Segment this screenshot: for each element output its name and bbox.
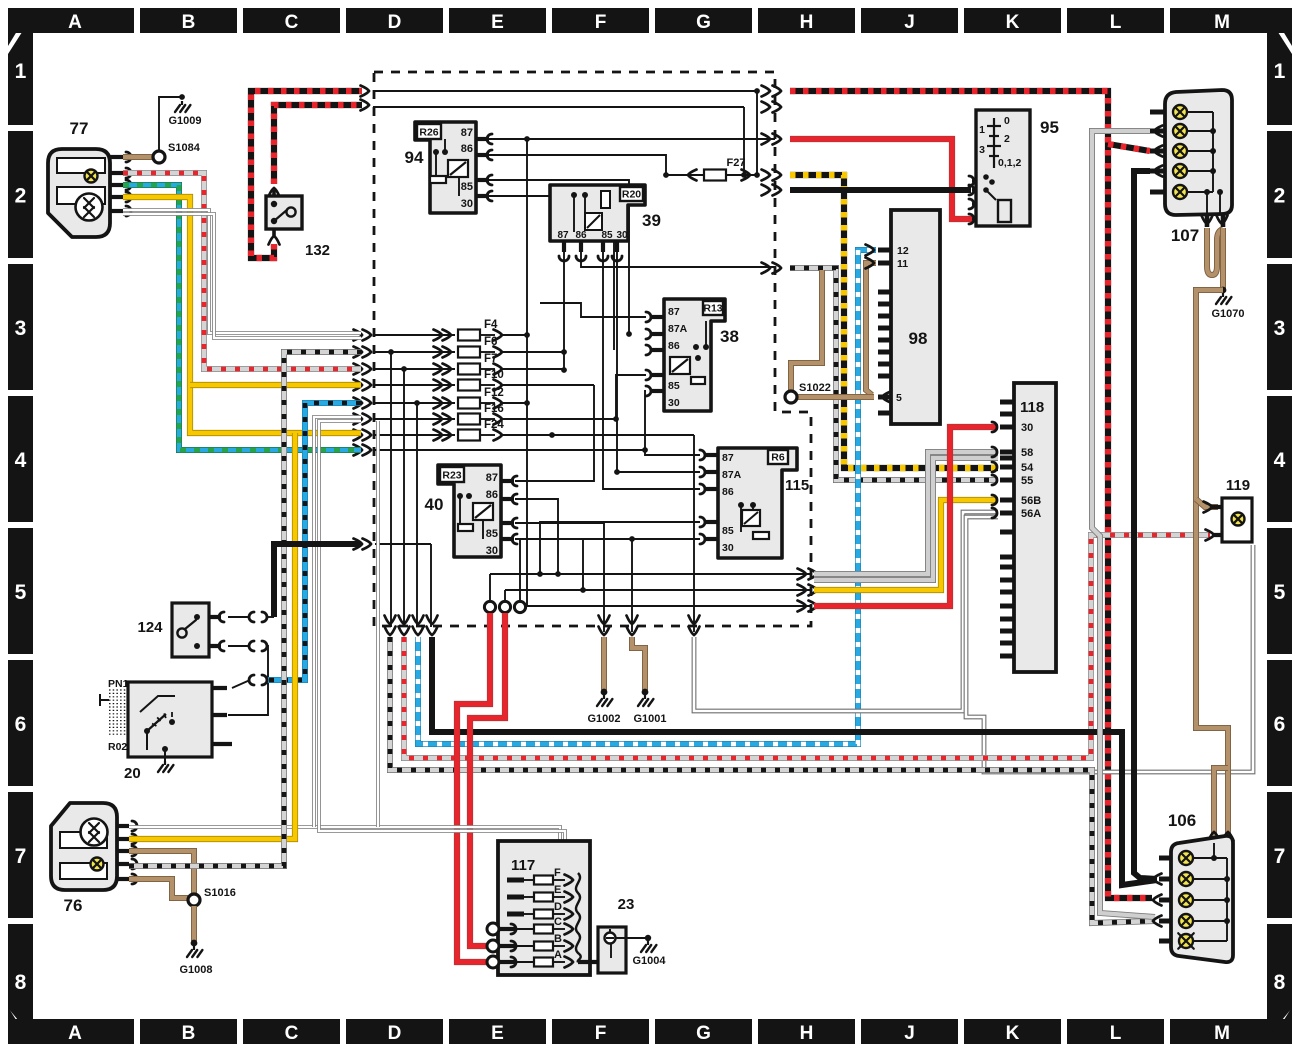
svg-text:98: 98 <box>909 329 928 348</box>
svg-text:95: 95 <box>1040 118 1059 137</box>
svg-text:1: 1 <box>15 60 27 83</box>
svg-text:G1009: G1009 <box>168 115 201 127</box>
wire red/black stripe battery loop to 132 <box>251 91 362 258</box>
svg-text:87: 87 <box>722 452 734 464</box>
wire brown 77 pin1 to S1084 <box>123 154 152 160</box>
wire green/blue stripe 77 pin3 to row y=450 <box>123 185 361 450</box>
svg-text:85: 85 <box>486 528 498 540</box>
fuse F24 <box>375 434 455 436</box>
svg-text:2: 2 <box>1004 133 1010 145</box>
svg-text:F24: F24 <box>484 419 504 431</box>
svg-text:D: D <box>388 1023 402 1044</box>
svg-text:R02: R02 <box>108 741 127 753</box>
svg-text:F7: F7 <box>484 353 497 365</box>
svg-text:G1004: G1004 <box>632 955 666 967</box>
svg-text:F12: F12 <box>484 387 504 399</box>
svg-text:A: A <box>68 1023 82 1044</box>
svg-text:3: 3 <box>979 144 985 156</box>
svg-text:0,1,2: 0,1,2 <box>998 157 1022 169</box>
node arrows on dashed border step x=811 <box>798 569 807 580</box>
wire riser x=744 <box>743 107 745 175</box>
svg-text:115: 115 <box>785 477 809 494</box>
svg-text:3: 3 <box>1274 317 1286 340</box>
wire trunk x=527 <box>526 139 528 606</box>
splice S1016 <box>188 894 200 906</box>
svg-text:107: 107 <box>1171 226 1199 245</box>
svg-text:12: 12 <box>897 245 909 257</box>
svg-text:5: 5 <box>896 392 902 404</box>
control unit 118 <box>992 383 1056 672</box>
svg-text:23: 23 <box>618 896 635 913</box>
svg-text:F: F <box>595 1023 607 1044</box>
node arrows on dashed border bottom exits <box>385 616 396 625</box>
relay 40 <box>425 465 517 557</box>
wire yellow 77 pin4 to fuses F10/F24 <box>123 197 361 433</box>
wire relay38 pin30 to thin row y=450 <box>645 391 700 455</box>
svg-text:30: 30 <box>616 230 628 241</box>
corner triangles <box>8 8 31 46</box>
instrument module 20 <box>100 678 232 782</box>
wire relay39 pin85 drop to relay115 pin86 <box>603 252 700 489</box>
svg-text:5: 5 <box>15 581 27 604</box>
svg-text:76: 76 <box>64 896 83 915</box>
svg-text:0: 0 <box>1004 115 1010 127</box>
wire cyan/black stripe F12 to 20 <box>266 403 361 680</box>
svg-text:G1002: G1002 <box>587 713 620 725</box>
svg-text:R6: R6 <box>771 452 785 464</box>
svg-text:30: 30 <box>1021 422 1033 434</box>
wire relay115 pin85 drop <box>540 522 700 574</box>
svg-text:C: C <box>285 12 299 33</box>
wire thin feed y=91 to F27 riser <box>373 90 757 92</box>
wire relay38 pin87 link <box>540 303 646 317</box>
svg-text:30: 30 <box>461 198 473 210</box>
wire 124 pin1 link <box>228 616 250 618</box>
wire black row y=544 arrows <box>363 539 372 550</box>
svg-text:F: F <box>595 12 607 33</box>
wire white 118 pin56A loop 1 <box>694 512 998 711</box>
wire brown to G1001 <box>632 637 645 690</box>
svg-text:117: 117 <box>511 857 535 874</box>
splice S1022 <box>785 391 797 403</box>
svg-text:F6: F6 <box>484 336 497 348</box>
ground G1009 <box>159 97 181 151</box>
wire brown branch to 119 pin1 <box>1196 499 1218 507</box>
wire red to light switch 95 <box>790 139 972 219</box>
wire yellow 76 pin2 riser to F24 <box>129 433 295 839</box>
wire brown to G1002 <box>601 637 607 690</box>
svg-text:1: 1 <box>979 124 985 136</box>
svg-text:A: A <box>68 12 82 33</box>
wire brown S1022 feed <box>791 270 822 391</box>
wire gray second 118 pin58 exit <box>814 458 998 580</box>
wire blue/white stripe 98 pin12 loop <box>418 250 876 744</box>
svg-text:J: J <box>904 12 915 33</box>
svg-text:3: 3 <box>15 317 27 340</box>
wire brown 98 pin11 to S1022 <box>866 263 876 395</box>
headlamp 77 <box>48 119 131 237</box>
svg-text:30: 30 <box>722 542 734 554</box>
wire relay94 pin30 to relay38 pin86 <box>489 196 614 350</box>
wire connector circle risers <box>489 574 491 600</box>
sensor 23 <box>598 896 634 973</box>
wire white 118 pin56A loop 2 <box>966 517 1253 772</box>
svg-text:7: 7 <box>1274 845 1286 868</box>
node arrows brown into 106 <box>1209 832 1220 841</box>
svg-text:K: K <box>1006 12 1020 33</box>
fuse F16 <box>375 418 455 420</box>
svg-text:6: 6 <box>1274 713 1286 736</box>
svg-text:56B: 56B <box>1021 495 1041 507</box>
splice S1084 <box>153 151 165 163</box>
wire red connector to 117 pin A <box>457 613 490 962</box>
wire gray/red stripe 77 pin2 to fuse F7 <box>123 173 361 369</box>
svg-text:87: 87 <box>461 127 473 139</box>
wire yellow/black stripe F27 to 118 pin54 <box>790 175 998 468</box>
light switch 95 <box>969 110 1059 226</box>
svg-text:S1016: S1016 <box>204 887 236 899</box>
svg-text:B: B <box>554 933 562 945</box>
connector circles <box>484 601 495 612</box>
svg-text:87: 87 <box>668 306 680 318</box>
svg-text:M: M <box>1214 12 1230 33</box>
wire thin feed y=107 <box>373 106 744 108</box>
fuse F12 <box>375 402 455 404</box>
svg-text:G1001: G1001 <box>633 713 666 725</box>
svg-text:R13: R13 <box>703 303 722 315</box>
svg-text:30: 30 <box>486 545 498 557</box>
svg-text:54: 54 <box>1021 462 1034 474</box>
wire relay38 pin85 to fuse F16 <box>616 375 646 419</box>
fuse F7 <box>375 368 455 370</box>
wire relay94 pin86 to fuse F27 <box>489 155 666 175</box>
svg-text:H: H <box>800 1023 814 1044</box>
dashed fuse-relay box outline <box>374 72 811 626</box>
svg-text:R23: R23 <box>442 470 461 482</box>
svg-text:E: E <box>491 12 504 33</box>
wire black to light switch 95 <box>790 187 971 193</box>
svg-text:S1022: S1022 <box>799 382 831 394</box>
svg-text:L: L <box>1110 1023 1122 1044</box>
right grid number boxes 1-8 <box>1267 15 1292 1038</box>
svg-text:86: 86 <box>461 143 473 155</box>
wire thin row y=544 <box>375 543 431 545</box>
svg-text:87: 87 <box>557 230 569 241</box>
left grid number boxes 1-8 <box>8 15 33 1038</box>
wire brown 107 to G1070 <box>1220 228 1226 290</box>
wire gray/red stripe bundle to 119 pin2 <box>404 535 1210 758</box>
wire black 117 to 23 <box>578 960 608 964</box>
svg-text:F: F <box>554 867 561 879</box>
wire relay39 pin30 drop to relay115 pin87A <box>617 252 700 472</box>
top grid letter boxes A-M <box>14 8 1288 33</box>
fuse F27 <box>666 174 757 176</box>
wire brown 76 pin3 to S1016 <box>129 851 194 894</box>
wire riser x=757 <box>756 91 758 175</box>
svg-text:56A: 56A <box>1021 508 1041 520</box>
wire brown 107 hairpin <box>1207 228 1223 275</box>
svg-text:L: L <box>1110 12 1122 33</box>
svg-text:E: E <box>491 1023 504 1044</box>
svg-text:55: 55 <box>1021 475 1033 487</box>
svg-text:6: 6 <box>15 713 27 736</box>
wire red 118 pin30 exit <box>814 427 998 606</box>
svg-text:106: 106 <box>1168 811 1196 830</box>
svg-text:30: 30 <box>668 397 680 409</box>
wire relay40 pin87 row <box>515 385 594 481</box>
wire brown S1016 to G1008 <box>191 906 197 941</box>
svg-text:39: 39 <box>642 211 661 230</box>
svg-text:86: 86 <box>722 486 734 498</box>
wire brown main right trunk <box>1196 290 1228 840</box>
svg-text:40: 40 <box>425 495 444 514</box>
wire brown spur to 106 <box>1214 768 1228 840</box>
switch 124 <box>137 603 224 657</box>
svg-text:86: 86 <box>486 489 498 501</box>
svg-text:G: G <box>696 1023 711 1044</box>
wire green row y=450 arrows <box>363 445 372 456</box>
svg-text:20: 20 <box>124 765 141 782</box>
wire gray/natural 107 pin2 down to 106 pin4 <box>1092 131 1155 917</box>
wire relay94 pin85 to relay38 pin87A <box>489 180 629 334</box>
side lamp 119 <box>1212 477 1252 542</box>
svg-text:5: 5 <box>1274 581 1286 604</box>
svg-text:D: D <box>554 901 562 913</box>
wire natural/black stripe bundle to 106 pin4 <box>390 637 1155 923</box>
wire thin row y=450 <box>375 449 645 451</box>
wire exit y=590 <box>505 589 812 591</box>
svg-text:1: 1 <box>1274 60 1286 83</box>
wire thin white F16 riser x=378 <box>376 421 380 827</box>
wire brown S1022 to 98 pin5 <box>797 394 874 400</box>
wire natural/black stripe to 118 pin55 <box>790 268 998 480</box>
wire relay39 pin86 drop to natural wire exit y=267 <box>581 252 775 267</box>
svg-text:F4: F4 <box>484 319 498 331</box>
svg-text:86: 86 <box>668 340 680 352</box>
svg-text:A: A <box>554 949 562 961</box>
svg-text:85: 85 <box>668 380 680 392</box>
svg-text:F16: F16 <box>484 403 504 415</box>
relay 115 <box>700 448 809 558</box>
svg-text:119: 119 <box>1226 477 1250 494</box>
headlamp 76 <box>51 803 137 915</box>
fuse F6 <box>375 351 455 353</box>
svg-text:2: 2 <box>15 185 27 208</box>
fuse F10 <box>375 384 455 386</box>
svg-text:124: 124 <box>137 619 163 636</box>
svg-text:8: 8 <box>1274 971 1286 994</box>
svg-text:87: 87 <box>486 472 498 484</box>
svg-text:K: K <box>1006 1023 1020 1044</box>
svg-text:86: 86 <box>575 230 587 241</box>
wire relay115 pin30 row y=539 <box>520 539 700 600</box>
relay 38 <box>646 299 739 411</box>
svg-text:11: 11 <box>897 258 908 270</box>
wire natural/black stripe 76 pin4 to fuse F6 <box>129 352 361 866</box>
wire red connector to 117 pin B <box>470 613 505 946</box>
wire fuse column risers <box>390 352 392 627</box>
wire G1001 exit drop x=632 <box>631 539 633 632</box>
wire relay39 pin87 drop x=564 <box>563 252 565 370</box>
svg-text:B: B <box>182 1023 196 1044</box>
svg-text:4: 4 <box>15 449 27 472</box>
svg-text:7: 7 <box>15 845 27 868</box>
svg-text:87A: 87A <box>668 323 688 335</box>
wire red/black stripe main feed to 107 <box>790 91 1152 898</box>
svg-text:8: 8 <box>15 971 27 994</box>
svg-text:85: 85 <box>461 181 473 193</box>
svg-text:77: 77 <box>70 119 89 138</box>
ground G1070 <box>1220 287 1227 294</box>
wire relay40 pin85 drop to G1002 exit <box>515 523 604 632</box>
svg-text:94: 94 <box>405 148 424 167</box>
fuse F4 <box>375 334 455 336</box>
bottom grid letter boxes A-M <box>14 1019 1288 1044</box>
wire thin white 77 pin5 to fuse F4 <box>123 210 361 333</box>
relay 94 <box>405 122 492 213</box>
wire white exit drop x=694 <box>693 435 695 632</box>
svg-text:118: 118 <box>1020 399 1044 416</box>
svg-text:132: 132 <box>305 242 330 259</box>
svg-text:R26: R26 <box>419 127 438 139</box>
svg-text:85: 85 <box>601 230 613 241</box>
svg-text:4: 4 <box>1274 449 1286 472</box>
svg-text:F27: F27 <box>727 157 746 169</box>
wire brown 76 pin5 to S1016 <box>129 879 188 898</box>
wire yellow 118 pin56B exit <box>814 500 998 590</box>
svg-text:B: B <box>182 12 196 33</box>
ground G1004 <box>616 937 646 939</box>
svg-text:E: E <box>554 884 561 896</box>
svg-text:38: 38 <box>720 327 739 346</box>
svg-text:M: M <box>1214 1023 1230 1044</box>
svg-text:85: 85 <box>722 525 734 537</box>
wire relay94 pin87 feed y=139 <box>489 138 775 140</box>
svg-text:58: 58 <box>1021 447 1033 459</box>
switch 132 <box>266 190 330 259</box>
wire relay40 pin30 drop <box>515 539 583 590</box>
svg-text:G1070: G1070 <box>1211 308 1244 320</box>
wire exit y=606 <box>527 605 812 607</box>
relay 39 <box>550 185 661 261</box>
svg-text:R20: R20 <box>622 189 641 201</box>
svg-text:C: C <box>285 1023 299 1044</box>
wire black bundle to 106 pin2 <box>432 637 1157 885</box>
svg-text:C: C <box>554 916 562 928</box>
wire thin white 76 pin1 to 117 <box>129 827 560 841</box>
connector 107 <box>1150 90 1232 245</box>
svg-text:G1008: G1008 <box>179 964 212 976</box>
wire black 107 pin4 down to 106 pin2 <box>1134 171 1157 879</box>
control unit 98 <box>866 210 941 424</box>
svg-text:F10: F10 <box>484 369 504 381</box>
rear lamp 106 <box>1153 811 1233 962</box>
wire thin white pair F16 drop <box>314 417 361 827</box>
fuse link block 117 <box>487 841 590 975</box>
svg-text:H: H <box>800 12 814 33</box>
svg-text:D: D <box>388 12 402 33</box>
svg-text:87A: 87A <box>722 469 742 481</box>
svg-text:PN1: PN1 <box>108 678 129 690</box>
svg-text:2: 2 <box>1274 185 1286 208</box>
wire red/black stripe branch to 107 pin3 <box>1108 144 1150 151</box>
wire black 124 riser to row y=544 <box>274 544 361 617</box>
wire gray 118 pin58 exit <box>814 452 998 574</box>
wire exit y=574 <box>490 573 812 575</box>
wire 124 pin2 link to 20 <box>228 645 250 647</box>
wire relay40 pin86 drop <box>515 499 558 574</box>
svg-text:J: J <box>904 1023 915 1044</box>
svg-text:G: G <box>696 12 711 33</box>
svg-text:S1084: S1084 <box>168 142 201 154</box>
node arrows on dashed border right x=775 <box>762 86 771 97</box>
